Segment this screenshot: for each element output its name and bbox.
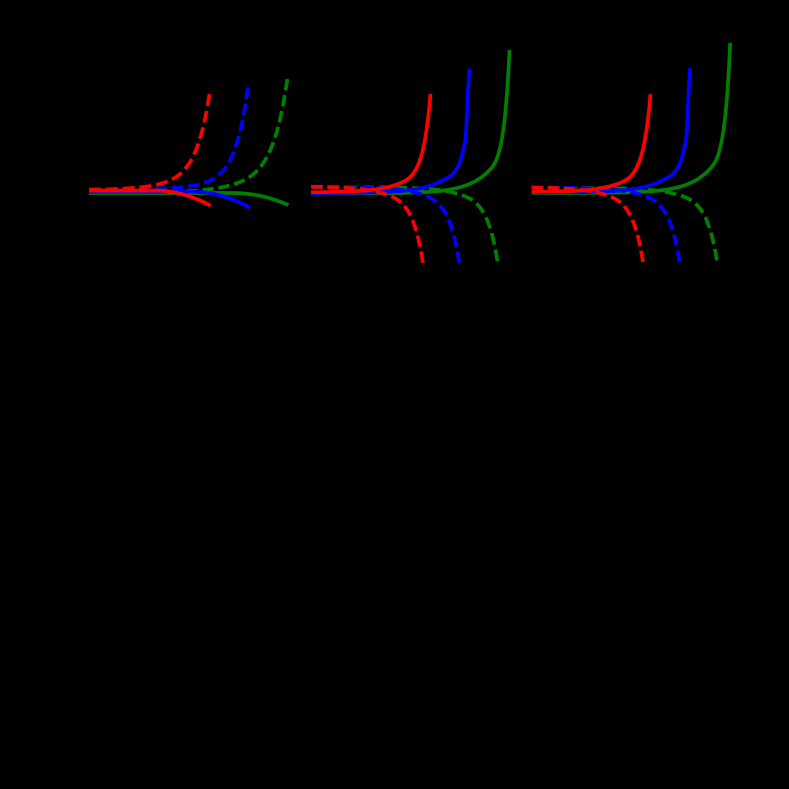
P3 solid red curve [532,94,651,192]
P2 solid green curve [311,50,510,193]
P1 dashed green curve [89,79,287,193]
P2 dashed blue curve [311,187,459,263]
P3 solid green curve [532,43,731,193]
P2 solid blue curve [311,69,469,193]
P3 solid blue curve [532,68,690,192]
P2 dashed green curve [311,187,498,261]
P2 dashed red curve [311,187,423,263]
P2 solid red curve [311,94,431,192]
P3 dashed blue curve [532,188,680,263]
P1 solid green curve [89,193,289,205]
P3 dashed red curve [532,188,644,263]
P1 dashed red curve [89,94,210,190]
P3 dashed green curve [532,188,717,261]
P1 solid red curve [89,191,211,206]
P1 solid blue curve [89,192,250,208]
P1 dashed blue curve [89,87,248,189]
